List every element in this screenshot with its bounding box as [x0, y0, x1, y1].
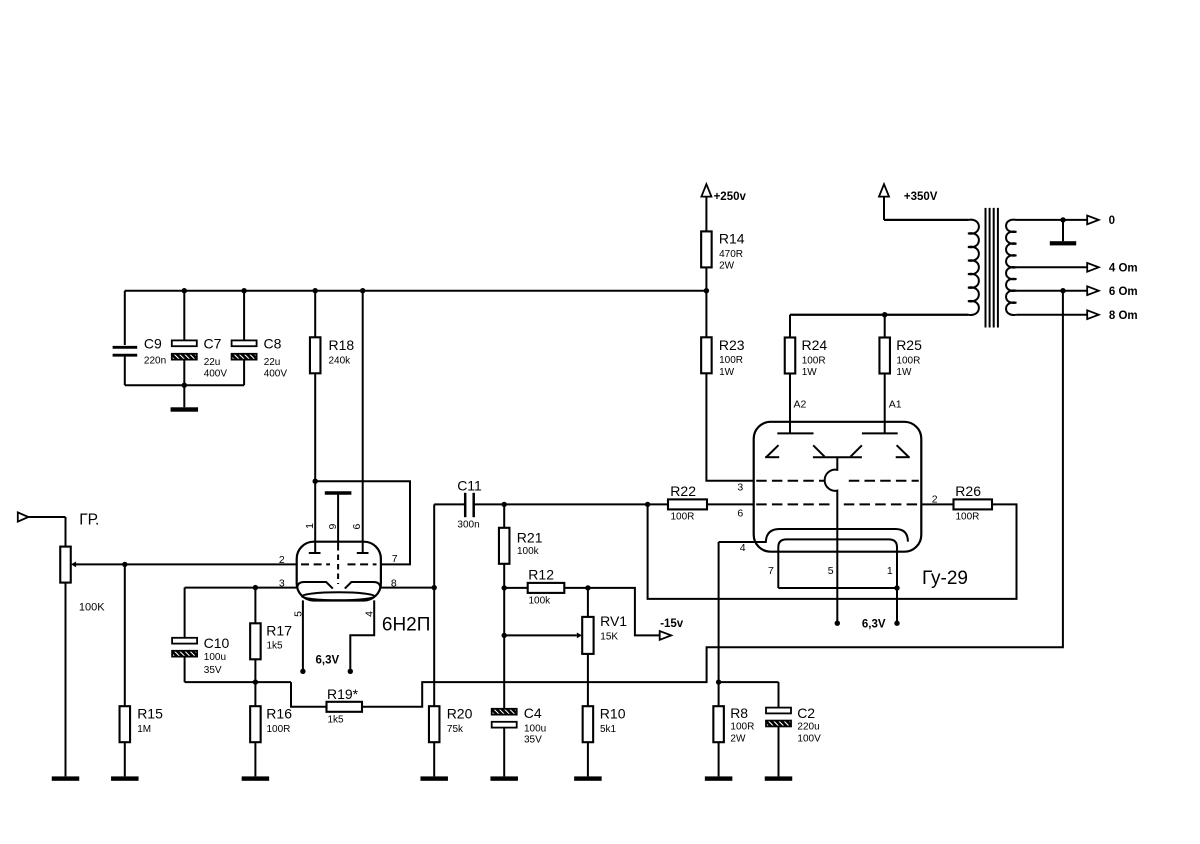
svg-text:R12: R12 [528, 567, 554, 583]
svg-text:100k: 100k [529, 595, 552, 606]
svg-text:R24: R24 [802, 337, 828, 353]
svg-text:Гу-29: Гу-29 [922, 568, 968, 589]
svg-text:100K: 100K [79, 601, 105, 613]
svg-text:7: 7 [768, 565, 774, 577]
svg-text:100R: 100R [267, 724, 291, 735]
svg-text:R18: R18 [329, 337, 355, 353]
svg-text:6 Om: 6 Om [1109, 286, 1138, 298]
svg-text:+350V: +350V [904, 191, 938, 203]
svg-text:470R: 470R [719, 249, 743, 260]
svg-text:35V: 35V [524, 735, 542, 746]
svg-text:3: 3 [737, 482, 743, 494]
svg-text:1W: 1W [896, 367, 912, 378]
svg-text:100R: 100R [802, 355, 826, 366]
svg-text:A2: A2 [794, 398, 807, 410]
svg-text:1W: 1W [802, 367, 818, 378]
svg-text:7: 7 [392, 553, 398, 565]
svg-text:100R: 100R [719, 355, 743, 366]
svg-text:C11: C11 [457, 477, 482, 493]
svg-text:C7: C7 [204, 336, 222, 352]
svg-text:C9: C9 [144, 336, 162, 352]
svg-text:220n: 220n [144, 355, 166, 366]
svg-text:8: 8 [391, 578, 397, 590]
svg-text:R22: R22 [670, 483, 696, 499]
svg-text:R10: R10 [600, 706, 626, 722]
svg-text:R16: R16 [266, 706, 292, 722]
svg-text:300n: 300n [457, 520, 479, 531]
svg-text:100R: 100R [896, 355, 920, 366]
svg-text:100u: 100u [204, 652, 226, 663]
svg-text:400V: 400V [264, 368, 288, 379]
svg-text:C8: C8 [264, 336, 282, 352]
svg-text:1: 1 [887, 565, 893, 577]
svg-text:1W: 1W [719, 367, 735, 378]
svg-text:2: 2 [932, 493, 938, 505]
svg-text:6: 6 [737, 507, 743, 519]
svg-text:R15: R15 [137, 706, 163, 722]
svg-text:100R: 100R [956, 511, 980, 522]
svg-text:1: 1 [304, 523, 316, 529]
svg-text:R20: R20 [447, 706, 473, 722]
svg-text:RV1: RV1 [600, 613, 627, 629]
svg-text:22u: 22u [264, 357, 281, 368]
svg-text:100k: 100k [517, 546, 540, 557]
svg-text:R19*: R19* [327, 686, 359, 702]
svg-text:2W: 2W [719, 261, 735, 272]
svg-text:0: 0 [1109, 215, 1115, 227]
svg-text:2W: 2W [730, 733, 746, 744]
svg-text:R26: R26 [955, 483, 981, 499]
svg-text:6: 6 [351, 524, 363, 530]
svg-text:R25: R25 [896, 337, 922, 353]
svg-text:1k5: 1k5 [328, 714, 345, 725]
svg-text:-15v: -15v [660, 618, 684, 630]
svg-text:15K: 15K [600, 632, 618, 643]
svg-text:100u: 100u [524, 723, 546, 734]
svg-text:ГР.: ГР. [79, 511, 99, 528]
svg-text:400V: 400V [204, 368, 228, 379]
svg-text:5k1: 5k1 [600, 724, 617, 735]
svg-text:240k: 240k [329, 355, 352, 366]
svg-text:5: 5 [828, 565, 834, 577]
svg-text:22u: 22u [204, 357, 221, 368]
svg-text:A1: A1 [889, 398, 902, 410]
svg-text:3: 3 [279, 578, 285, 590]
svg-text:5: 5 [292, 611, 304, 617]
svg-text:6,3V: 6,3V [316, 654, 340, 666]
svg-text:C4: C4 [524, 705, 542, 721]
svg-text:6,3V: 6,3V [862, 619, 886, 631]
svg-text:9: 9 [327, 524, 339, 530]
svg-text:1k5: 1k5 [267, 641, 284, 652]
svg-text:4: 4 [363, 611, 375, 617]
svg-text:75k: 75k [447, 724, 464, 735]
svg-text:+250v: +250v [714, 191, 747, 203]
svg-text:8 Om: 8 Om [1109, 310, 1138, 322]
svg-text:220u: 220u [797, 722, 819, 733]
svg-text:C10: C10 [204, 635, 230, 651]
svg-text:R17: R17 [266, 623, 292, 639]
svg-text:R23: R23 [719, 337, 745, 353]
svg-text:R8: R8 [730, 705, 748, 721]
svg-text:4 Om: 4 Om [1109, 263, 1138, 275]
svg-text:100V: 100V [797, 733, 821, 744]
svg-text:4: 4 [740, 542, 746, 554]
svg-text:C2: C2 [797, 705, 815, 721]
svg-text:100R: 100R [730, 722, 754, 733]
svg-text:6Н2П: 6Н2П [382, 614, 431, 635]
svg-text:35V: 35V [204, 665, 222, 676]
svg-text:1M: 1M [137, 724, 151, 735]
svg-text:R21: R21 [517, 529, 543, 545]
svg-text:100R: 100R [671, 511, 695, 522]
svg-text:2: 2 [279, 554, 285, 566]
svg-text:R14: R14 [719, 231, 745, 247]
